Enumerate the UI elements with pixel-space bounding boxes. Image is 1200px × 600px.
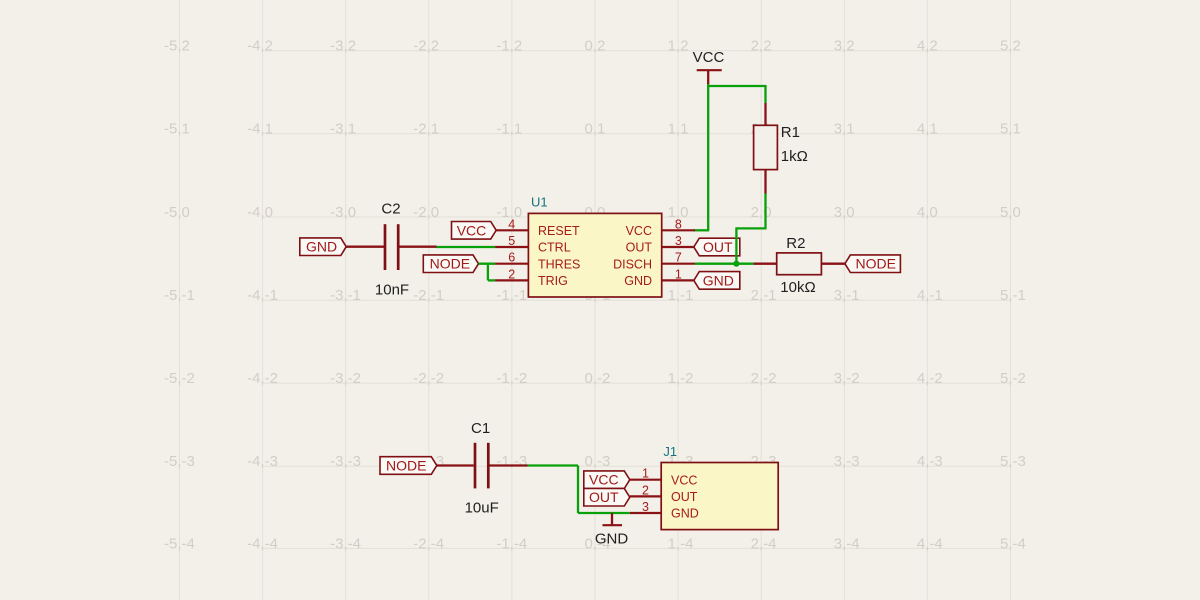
svg-text:-3,: -3, bbox=[330, 287, 348, 304]
svg-text:-2: -2 bbox=[431, 370, 444, 387]
svg-text:-3,: -3, bbox=[330, 370, 348, 387]
svg-text:4,: 4, bbox=[917, 38, 930, 55]
svg-text:2,: 2, bbox=[751, 535, 764, 552]
svg-text:-2: -2 bbox=[846, 370, 859, 387]
svg-text:-5,: -5, bbox=[164, 121, 182, 138]
svg-text:10nF: 10nF bbox=[375, 281, 409, 298]
svg-text:OUT: OUT bbox=[589, 489, 619, 505]
wire GND tag to C2 bbox=[346, 246, 385, 248]
svg-text:J1: J1 bbox=[663, 444, 677, 459]
svg-text:-4,: -4, bbox=[247, 38, 265, 55]
wire NODE branch down bbox=[487, 264, 489, 281]
svg-text:2: 2 bbox=[431, 38, 439, 55]
wire down to R1 bbox=[764, 85, 766, 103]
svg-text:-2: -2 bbox=[680, 370, 693, 387]
svg-text:4,: 4, bbox=[917, 287, 930, 304]
svg-text:R1: R1 bbox=[781, 124, 800, 141]
net label OUT bbox=[694, 238, 740, 256]
svg-text:-4: -4 bbox=[1013, 535, 1026, 552]
svg-text:2: 2 bbox=[514, 38, 522, 55]
svg-text:5,: 5, bbox=[1000, 453, 1013, 470]
svg-text:OUT: OUT bbox=[671, 490, 698, 504]
svg-text:0,: 0, bbox=[584, 121, 597, 138]
svg-text:-1: -1 bbox=[431, 287, 444, 304]
svg-text:GND: GND bbox=[306, 239, 337, 255]
svg-text:VCC: VCC bbox=[671, 473, 697, 487]
svg-text:-4,: -4, bbox=[247, 453, 265, 470]
net label OUT2 bbox=[584, 488, 630, 506]
svg-text:-5,: -5, bbox=[164, 287, 182, 304]
svg-text:4,: 4, bbox=[917, 535, 930, 552]
svg-text:-3,: -3, bbox=[330, 204, 348, 221]
net label NODE bbox=[423, 255, 478, 273]
svg-text:VCC: VCC bbox=[589, 472, 619, 488]
connector J1 bbox=[630, 444, 778, 530]
wire R1 bottom left bbox=[736, 227, 766, 229]
svg-text:3,: 3, bbox=[834, 38, 847, 55]
svg-text:-4: -4 bbox=[182, 535, 195, 552]
wire NODE to C1 bbox=[437, 464, 474, 466]
svg-text:-4: -4 bbox=[929, 535, 942, 552]
svg-text:-5,: -5, bbox=[164, 535, 182, 552]
svg-text:1: 1 bbox=[431, 121, 439, 138]
resistor R1 bbox=[754, 103, 808, 194]
svg-text:4,: 4, bbox=[917, 204, 930, 221]
svg-text:-4,: -4, bbox=[247, 121, 265, 138]
svg-text:-1: -1 bbox=[680, 287, 693, 304]
svg-text:-3: -3 bbox=[846, 453, 859, 470]
net label VCC2 bbox=[584, 471, 630, 489]
svg-text:-3,: -3, bbox=[330, 535, 348, 552]
svg-text:U1: U1 bbox=[531, 195, 548, 210]
svg-text:-2: -2 bbox=[597, 370, 610, 387]
svg-text:8: 8 bbox=[675, 217, 682, 231]
svg-text:-2,: -2, bbox=[413, 204, 431, 221]
svg-text:GND: GND bbox=[595, 530, 629, 547]
svg-text:-1,: -1, bbox=[496, 38, 514, 55]
svg-text:3,: 3, bbox=[834, 535, 847, 552]
svg-text:-1,: -1, bbox=[496, 121, 514, 138]
svg-text:0: 0 bbox=[265, 204, 273, 221]
net label GND2 bbox=[694, 272, 740, 290]
svg-text:2: 2 bbox=[182, 38, 190, 55]
svg-text:-2: -2 bbox=[348, 370, 361, 387]
wire VCC to R1 top bbox=[707, 85, 765, 87]
svg-text:2: 2 bbox=[348, 38, 356, 55]
svg-text:3: 3 bbox=[675, 234, 682, 248]
wire pin8 horizontal bbox=[694, 229, 710, 231]
svg-text:2: 2 bbox=[265, 38, 273, 55]
svg-text:-4: -4 bbox=[763, 535, 776, 552]
net label GND bbox=[300, 238, 346, 256]
svg-text:0: 0 bbox=[431, 204, 439, 221]
svg-text:4,: 4, bbox=[917, 121, 930, 138]
svg-text:1,: 1, bbox=[668, 287, 681, 304]
svg-text:2: 2 bbox=[508, 267, 515, 281]
svg-text:10uF: 10uF bbox=[465, 500, 499, 517]
svg-text:TRIG: TRIG bbox=[538, 274, 568, 288]
svg-text:1: 1 bbox=[1013, 121, 1021, 138]
svg-text:-4: -4 bbox=[348, 535, 361, 552]
svg-text:GND: GND bbox=[703, 272, 734, 288]
svg-text:GND: GND bbox=[671, 507, 699, 521]
svg-text:0: 0 bbox=[1013, 204, 1021, 221]
svg-text:4,: 4, bbox=[917, 370, 930, 387]
svg-text:-4: -4 bbox=[265, 535, 278, 552]
svg-text:-2,: -2, bbox=[413, 121, 431, 138]
svg-text:-1: -1 bbox=[265, 287, 278, 304]
wire corner down bbox=[577, 466, 579, 514]
svg-text:2: 2 bbox=[929, 38, 937, 55]
svg-text:-2: -2 bbox=[1013, 370, 1026, 387]
svg-text:0: 0 bbox=[182, 204, 190, 221]
wire C2 to pin5 bbox=[436, 246, 495, 248]
svg-text:1,: 1, bbox=[668, 370, 681, 387]
svg-text:1: 1 bbox=[680, 121, 688, 138]
wire C1 to corner bbox=[528, 464, 579, 466]
svg-text:1: 1 bbox=[929, 121, 937, 138]
svg-text:R2: R2 bbox=[786, 235, 805, 252]
svg-text:6: 6 bbox=[508, 251, 515, 265]
svg-text:-4,: -4, bbox=[247, 370, 265, 387]
wire pin7 to R2 bbox=[695, 263, 753, 265]
svg-text:1: 1 bbox=[348, 121, 356, 138]
svg-text:-1: -1 bbox=[348, 287, 361, 304]
svg-text:-1,: -1, bbox=[496, 535, 514, 552]
svg-text:1: 1 bbox=[675, 267, 682, 281]
svg-text:1,: 1, bbox=[668, 121, 681, 138]
svg-text:C1: C1 bbox=[471, 420, 490, 437]
svg-text:4: 4 bbox=[508, 217, 515, 231]
net label NODE3 bbox=[380, 457, 437, 475]
svg-text:0: 0 bbox=[929, 204, 937, 221]
svg-text:1: 1 bbox=[514, 121, 522, 138]
svg-text:-1,: -1, bbox=[496, 453, 514, 470]
svg-text:VCC: VCC bbox=[457, 222, 487, 238]
svg-text:-3,: -3, bbox=[330, 121, 348, 138]
svg-text:-4: -4 bbox=[846, 535, 859, 552]
svg-text:NODE: NODE bbox=[386, 458, 426, 474]
svg-text:-3: -3 bbox=[1013, 453, 1026, 470]
svg-text:3,: 3, bbox=[834, 370, 847, 387]
svg-text:1: 1 bbox=[846, 121, 854, 138]
svg-text:-1: -1 bbox=[514, 287, 527, 304]
wire down to pin7 row bbox=[735, 227, 737, 263]
svg-text:0,: 0, bbox=[584, 38, 597, 55]
svg-text:2: 2 bbox=[846, 38, 854, 55]
svg-text:VCC: VCC bbox=[693, 49, 725, 66]
net label VCC bbox=[452, 222, 497, 240]
svg-text:3,: 3, bbox=[834, 453, 847, 470]
svg-text:-2: -2 bbox=[514, 370, 527, 387]
svg-text:DISCH: DISCH bbox=[613, 257, 652, 271]
net label NODE2 bbox=[845, 255, 901, 273]
svg-text:THRES: THRES bbox=[538, 257, 580, 271]
wire branch to pin2 bbox=[488, 279, 495, 281]
resistor R2 bbox=[753, 235, 845, 296]
svg-text:2,: 2, bbox=[751, 204, 764, 221]
wire R1 bottom down bbox=[764, 194, 766, 229]
svg-text:0: 0 bbox=[846, 204, 854, 221]
svg-text:GND: GND bbox=[624, 274, 652, 288]
svg-text:OUT: OUT bbox=[703, 239, 733, 255]
svg-text:1: 1 bbox=[182, 121, 190, 138]
svg-text:5,: 5, bbox=[1000, 370, 1013, 387]
power flag VCC bbox=[693, 49, 725, 84]
op-amp U1 555 timer bbox=[495, 195, 695, 297]
svg-text:7: 7 bbox=[675, 251, 682, 265]
svg-text:-2,: -2, bbox=[413, 38, 431, 55]
svg-text:C2: C2 bbox=[381, 200, 400, 217]
svg-text:-1: -1 bbox=[929, 287, 942, 304]
svg-text:VCC: VCC bbox=[626, 224, 652, 238]
svg-text:1: 1 bbox=[597, 121, 605, 138]
svg-text:-2: -2 bbox=[763, 370, 776, 387]
svg-text:-1: -1 bbox=[182, 287, 195, 304]
svg-text:-4,: -4, bbox=[247, 535, 265, 552]
ground bbox=[595, 513, 629, 547]
wire to pin3 bbox=[578, 512, 630, 514]
svg-text:-1: -1 bbox=[846, 287, 859, 304]
svg-text:5,: 5, bbox=[1000, 121, 1013, 138]
capacitor C1 bbox=[465, 420, 499, 517]
svg-text:-2: -2 bbox=[182, 370, 195, 387]
svg-text:-3: -3 bbox=[348, 453, 361, 470]
svg-text:-1,: -1, bbox=[496, 287, 514, 304]
svg-text:-3: -3 bbox=[514, 453, 527, 470]
svg-text:2: 2 bbox=[642, 483, 649, 497]
svg-text:1: 1 bbox=[265, 121, 273, 138]
svg-text:-3: -3 bbox=[265, 453, 278, 470]
svg-text:2: 2 bbox=[597, 38, 605, 55]
svg-text:2,: 2, bbox=[751, 370, 764, 387]
svg-text:10kΩ: 10kΩ bbox=[780, 279, 815, 296]
svg-text:1,: 1, bbox=[668, 38, 681, 55]
svg-text:-4,: -4, bbox=[247, 204, 265, 221]
svg-text:-4: -4 bbox=[680, 535, 693, 552]
svg-text:5,: 5, bbox=[1000, 204, 1013, 221]
svg-text:5,: 5, bbox=[1000, 535, 1013, 552]
svg-text:4,: 4, bbox=[917, 453, 930, 470]
svg-text:-3: -3 bbox=[597, 453, 610, 470]
svg-text:OUT: OUT bbox=[626, 241, 653, 255]
svg-text:-2,: -2, bbox=[413, 535, 431, 552]
svg-text:2: 2 bbox=[680, 38, 688, 55]
svg-text:1,: 1, bbox=[668, 535, 681, 552]
svg-text:-2,: -2, bbox=[413, 287, 431, 304]
svg-text:5,: 5, bbox=[1000, 287, 1013, 304]
svg-text:0,: 0, bbox=[584, 453, 597, 470]
svg-text:-5,: -5, bbox=[164, 370, 182, 387]
svg-text:-1: -1 bbox=[1013, 287, 1026, 304]
svg-text:1: 1 bbox=[642, 467, 649, 481]
wire C2 to green bbox=[398, 246, 436, 248]
svg-text:2: 2 bbox=[763, 38, 771, 55]
svg-text:5,: 5, bbox=[1000, 38, 1013, 55]
svg-text:-5,: -5, bbox=[164, 204, 182, 221]
svg-text:0: 0 bbox=[348, 204, 356, 221]
svg-text:2,: 2, bbox=[751, 287, 764, 304]
wire VCC down to pin8 bbox=[707, 84, 709, 230]
svg-text:3,: 3, bbox=[834, 287, 847, 304]
svg-text:CTRL: CTRL bbox=[538, 241, 571, 255]
svg-text:1kΩ: 1kΩ bbox=[781, 148, 808, 165]
svg-text:-3,: -3, bbox=[330, 453, 348, 470]
wire C1 right bbox=[490, 464, 528, 466]
svg-text:NODE: NODE bbox=[430, 256, 470, 272]
svg-text:-5,: -5, bbox=[164, 453, 182, 470]
svg-text:-1: -1 bbox=[763, 287, 776, 304]
svg-text:2,: 2, bbox=[751, 38, 764, 55]
svg-text:-3: -3 bbox=[182, 453, 195, 470]
svg-text:-3,: -3, bbox=[330, 38, 348, 55]
svg-text:-2: -2 bbox=[265, 370, 278, 387]
svg-text:-2: -2 bbox=[929, 370, 942, 387]
svg-text:-4,: -4, bbox=[247, 287, 265, 304]
capacitor C2 bbox=[375, 200, 409, 298]
svg-text:3,: 3, bbox=[834, 121, 847, 138]
svg-text:-5,: -5, bbox=[164, 38, 182, 55]
svg-text:NODE: NODE bbox=[856, 256, 896, 272]
svg-text:0,: 0, bbox=[584, 370, 597, 387]
svg-text:RESET: RESET bbox=[538, 224, 580, 238]
svg-text:-4: -4 bbox=[514, 535, 527, 552]
wire NODE to pin6 bbox=[479, 263, 496, 265]
svg-text:-1,: -1, bbox=[496, 370, 514, 387]
svg-text:-4: -4 bbox=[431, 535, 444, 552]
svg-text:-3: -3 bbox=[929, 453, 942, 470]
svg-text:3: 3 bbox=[642, 500, 649, 514]
svg-text:-2,: -2, bbox=[413, 370, 431, 387]
svg-text:3,: 3, bbox=[834, 204, 847, 221]
junction bbox=[733, 261, 739, 267]
svg-text:5: 5 bbox=[508, 234, 515, 248]
svg-text:2: 2 bbox=[1013, 38, 1021, 55]
